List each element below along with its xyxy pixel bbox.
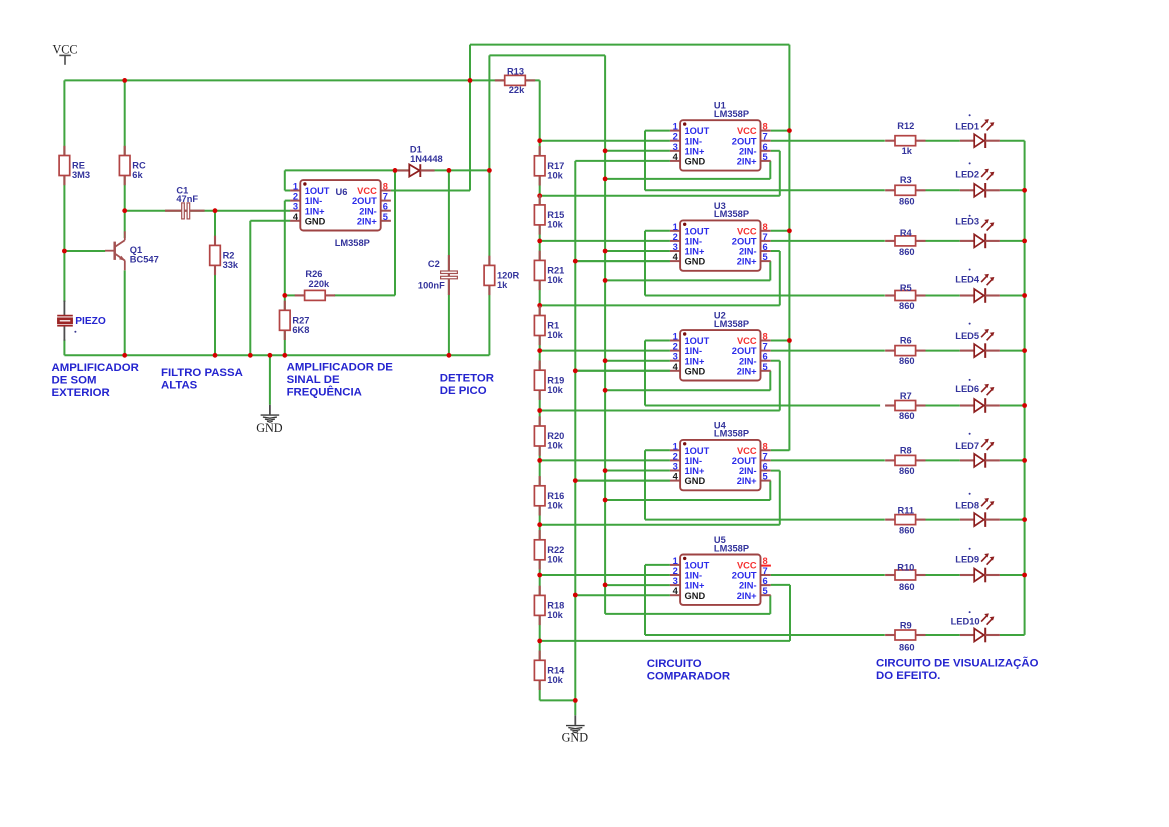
wire LED9 cathode to bus: [1000, 574, 1025, 576]
LED LED1: [960, 119, 1000, 148]
svg-text:1OUT: 1OUT: [305, 186, 330, 196]
svg-text:2OUT: 2OUT: [732, 346, 757, 356]
wire signal bus to U4 pin3: [605, 470, 670, 472]
svg-text:2IN-: 2IN-: [359, 206, 377, 216]
wire ladder tap toward U3 pin6: [540, 304, 780, 306]
svg-text:GND: GND: [685, 157, 706, 167]
op-amp U3 (LM358P): [670, 220, 771, 270]
LED9 value dot: [969, 548, 971, 550]
svg-text:1IN-: 1IN-: [305, 196, 323, 206]
LED10 value dot: [969, 611, 971, 613]
svg-text:FREQUÊNCIA: FREQUÊNCIA: [287, 386, 362, 399]
svg-text:1N4448: 1N4448: [410, 154, 443, 164]
junction ladder tap: [537, 458, 542, 463]
LED LED8: [960, 498, 1000, 527]
svg-text:1OUT: 1OUT: [685, 226, 710, 236]
svg-text:DO EFEITO.: DO EFEITO.: [876, 670, 940, 682]
svg-text:33k: 33k: [223, 260, 239, 270]
svg-text:R4: R4: [900, 228, 913, 238]
svg-text:2OUT: 2OUT: [732, 136, 757, 146]
wire U3 pin7 to LED row: [771, 240, 885, 242]
svg-text:2: 2: [673, 451, 678, 461]
svg-text:6k: 6k: [132, 170, 143, 180]
svg-text:1k: 1k: [902, 146, 913, 156]
svg-text:C2: C2: [428, 259, 440, 269]
wire signal bus to U2 pin5: [605, 389, 770, 391]
wire U3 pin8 to VCC bus: [771, 230, 790, 232]
svg-text:5: 5: [763, 152, 768, 162]
svg-text:1: 1: [293, 182, 298, 192]
svg-text:3: 3: [673, 242, 678, 252]
diode D1 (1N4448): [397, 164, 434, 177]
wire ladder tap to U2 pin2: [540, 350, 670, 352]
resistor R15: [534, 195, 545, 234]
junction ladder tap: [537, 639, 542, 644]
svg-text:3: 3: [293, 202, 298, 212]
svg-text:8: 8: [763, 222, 768, 232]
resistor R4: [885, 236, 925, 246]
wire U5 pin1 stub: [645, 564, 670, 566]
junction: [393, 168, 398, 173]
svg-text:VCC: VCC: [737, 226, 757, 236]
svg-text:BC547: BC547: [130, 254, 159, 264]
junction signal bus: [603, 583, 608, 588]
transistor Q1 (BC547): [105, 231, 125, 270]
wire LED8 cathode to bus: [1000, 519, 1025, 521]
junction: [122, 208, 127, 213]
resistor R13: [495, 75, 535, 85]
wire riser to U2 pin6: [779, 361, 781, 411]
PIEZO value dot: [74, 331, 76, 333]
svg-text:4: 4: [673, 362, 679, 372]
wire U3 pin1 stub: [645, 230, 670, 232]
resistor RC: [119, 146, 130, 185]
svg-text:2IN-: 2IN-: [739, 466, 757, 476]
wire U2 pin8 to VCC bus: [771, 340, 790, 342]
svg-text:R12: R12: [897, 121, 914, 131]
svg-text:6: 6: [763, 142, 768, 152]
svg-text:2IN-: 2IN-: [739, 146, 757, 156]
wire ladder tap to U4 pin2: [540, 459, 670, 461]
resistor R7: [885, 401, 925, 411]
junction ladder tap: [537, 348, 542, 353]
wire U4 pin1 to LED row: [645, 519, 885, 521]
wire signal bus to U2 pin3: [605, 360, 670, 362]
wire riser to U3 pin6: [779, 251, 781, 305]
resistor R18: [534, 586, 545, 625]
svg-text:1IN-: 1IN-: [685, 571, 703, 581]
svg-text:7: 7: [763, 451, 768, 461]
junction: [122, 353, 127, 358]
wire LED6 cathode to bus: [1000, 405, 1025, 407]
wire U5 pin7 to LED row: [771, 574, 885, 576]
svg-text:LED7: LED7: [955, 441, 979, 451]
wire resistor ladder: [539, 80, 541, 700]
wire riser to U4 pin6: [779, 471, 781, 525]
svg-text:LED8: LED8: [955, 500, 979, 510]
svg-text:R13: R13: [507, 66, 524, 76]
junction LED bus: [1022, 188, 1027, 193]
wire comparator GND bus: [574, 161, 576, 715]
ground: [261, 405, 280, 422]
wire R2 branch: [214, 211, 216, 356]
wire R to LED3: [926, 240, 960, 242]
junction GND bus: [573, 698, 578, 703]
svg-text:1IN-: 1IN-: [685, 136, 703, 146]
svg-text:860: 860: [899, 642, 915, 652]
junction: [213, 353, 218, 358]
svg-text:2: 2: [673, 566, 678, 576]
wire riser to U1 pin6: [779, 151, 781, 196]
svg-text:860: 860: [899, 356, 915, 366]
junction: [213, 208, 218, 213]
junction GND bus: [573, 368, 578, 373]
svg-text:2OUT: 2OUT: [732, 571, 757, 581]
resistor R5: [885, 291, 925, 301]
svg-text:860: 860: [899, 582, 915, 592]
svg-text:R10: R10: [897, 563, 914, 573]
wire U6 pin1 stub: [285, 190, 291, 192]
wire GND bus to U3 pin4: [575, 260, 670, 262]
svg-text:47nF: 47nF: [176, 194, 198, 204]
resistor R16: [534, 476, 545, 515]
wire GND bus to U3 pin4: [575, 260, 670, 262]
svg-text:2OUT: 2OUT: [732, 456, 757, 466]
junction LED bus: [1022, 573, 1027, 578]
junction ladder tap: [537, 522, 542, 527]
svg-text:R7: R7: [900, 391, 912, 401]
resistor 120R: [484, 256, 495, 295]
resistor R17: [534, 146, 545, 185]
svg-text:1IN-: 1IN-: [685, 237, 703, 247]
wire R to LED6: [926, 405, 960, 407]
svg-text:6: 6: [763, 576, 768, 586]
wire GND bus to U4 pin4: [575, 480, 670, 482]
svg-text:EXTERIOR: EXTERIOR: [52, 387, 110, 399]
junction LED bus: [1022, 293, 1027, 298]
wire U2 pin6 stub: [771, 360, 780, 362]
svg-text:CIRCUITO DE VISUALIZAÇÃO: CIRCUITO DE VISUALIZAÇÃO: [876, 657, 1039, 670]
svg-text:2: 2: [673, 232, 678, 242]
resistor R14: [534, 651, 545, 690]
svg-text:2IN+: 2IN+: [737, 476, 757, 486]
op-amp U5 (LM358P): [670, 555, 771, 605]
wire ladder tap toward U1 pin6: [540, 195, 780, 197]
junction ladder tap: [537, 303, 542, 308]
junction ladder tap: [537, 239, 542, 244]
svg-text:LM358P: LM358P: [714, 109, 749, 119]
junction: [447, 353, 452, 358]
wire RC branch down to Q1 collector: [124, 80, 126, 238]
svg-text:1IN+: 1IN+: [685, 466, 705, 476]
wire U3 pin5 riser: [769, 261, 771, 280]
svg-text:2IN+: 2IN+: [737, 257, 757, 267]
svg-text:DE PICO: DE PICO: [440, 385, 487, 397]
resistor R21: [534, 251, 545, 290]
junction: [487, 168, 492, 173]
svg-text:R11: R11: [898, 506, 915, 516]
LED8 value dot: [969, 493, 971, 495]
wire U4 pin1 stub: [645, 449, 670, 451]
svg-text:1: 1: [673, 222, 678, 232]
capacitor C1: [165, 203, 205, 219]
wire ladder tap to U3 pin2: [540, 240, 670, 242]
junction: [468, 78, 473, 83]
wire VCC rail down left column: [63, 80, 65, 302]
wire U1 pin6 stub: [771, 150, 780, 152]
wire VCC drop at x470: [469, 45, 471, 191]
svg-text:2IN+: 2IN+: [737, 366, 757, 376]
wire U1 pin8 to VCC bus: [771, 130, 790, 132]
wire ladder tap to U1 pin2: [540, 140, 670, 142]
wire ground rail to GND symbol: [269, 355, 271, 405]
svg-text:4: 4: [673, 586, 679, 596]
wire R to LED4: [926, 295, 960, 297]
svg-text:1: 1: [673, 441, 678, 451]
resistor R27: [280, 301, 291, 340]
junction signal bus: [603, 498, 608, 503]
svg-text:860: 860: [899, 301, 915, 311]
svg-text:1OUT: 1OUT: [685, 126, 710, 136]
svg-text:5: 5: [763, 472, 768, 482]
junction LED bus: [1022, 403, 1027, 408]
resistor R22: [534, 530, 545, 569]
svg-text:22k: 22k: [509, 85, 525, 95]
wire U2 pin7 to LED row: [771, 350, 885, 352]
svg-text:2: 2: [293, 192, 298, 202]
svg-text:10k: 10k: [547, 275, 563, 285]
svg-text:R6: R6: [900, 336, 912, 346]
svg-text:8: 8: [383, 182, 388, 192]
svg-text:VCC: VCC: [737, 561, 757, 571]
junction signal bus: [603, 249, 608, 254]
junction signal bus: [603, 468, 608, 473]
wire signal bus to U5 pin5: [605, 613, 770, 615]
LED6 value dot: [969, 379, 971, 381]
svg-text:4: 4: [673, 472, 679, 482]
wire R to LED9: [926, 574, 960, 576]
LED LED2: [960, 169, 1000, 198]
wire R to LED5: [926, 350, 960, 352]
op-amp U4 (LM358P): [670, 440, 771, 490]
junction GND bus: [573, 593, 578, 598]
LED4 value dot: [969, 269, 971, 271]
svg-text:7: 7: [763, 566, 768, 576]
svg-text:2OUT: 2OUT: [732, 237, 757, 247]
LED LED5: [960, 329, 1000, 358]
junction: [62, 249, 67, 254]
svg-text:LED6: LED6: [955, 384, 979, 394]
svg-text:PIEZO: PIEZO: [75, 316, 106, 327]
svg-text:COMPARADOR: COMPARADOR: [647, 670, 730, 682]
svg-text:CIRCUITO: CIRCUITO: [647, 658, 702, 670]
svg-text:860: 860: [899, 525, 915, 535]
wire U6 pin1 up: [284, 170, 286, 190]
junction signal bus: [603, 388, 608, 393]
LED LED10: [960, 613, 1000, 642]
wire R26 right: [334, 294, 395, 296]
svg-text:7: 7: [763, 342, 768, 352]
svg-text:10k: 10k: [547, 441, 563, 451]
resistor R26: [295, 290, 335, 300]
svg-text:2IN-: 2IN-: [739, 247, 757, 257]
svg-text:LM358P: LM358P: [714, 543, 749, 553]
svg-text:1IN+: 1IN+: [305, 206, 325, 216]
svg-text:5: 5: [763, 252, 768, 262]
svg-text:220k: 220k: [309, 279, 331, 289]
wire signal bus to U3 pin5: [605, 279, 770, 281]
wire R to LED10: [926, 634, 960, 636]
wire U5 pin5 riser: [769, 595, 771, 614]
svg-text:R8: R8: [900, 446, 912, 456]
wire LED3 cathode to bus: [1000, 240, 1025, 242]
svg-text:1OUT: 1OUT: [685, 336, 710, 346]
svg-text:4: 4: [673, 152, 679, 162]
svg-text:2IN-: 2IN-: [739, 356, 757, 366]
wire U2 pin1 stub: [645, 340, 670, 342]
svg-text:DETETOR: DETETOR: [440, 372, 494, 384]
resistor R8: [885, 455, 925, 465]
svg-text:FILTRO PASSA: FILTRO PASSA: [161, 367, 243, 379]
wire piezo to ground rail: [63, 340, 65, 356]
wire signal bus to U1 pin5: [605, 178, 770, 180]
wire GND bus to U4 pin4: [575, 480, 670, 482]
svg-text:10k: 10k: [547, 500, 563, 510]
svg-text:2IN+: 2IN+: [737, 157, 757, 167]
svg-text:4: 4: [673, 252, 679, 262]
svg-text:3: 3: [673, 142, 678, 152]
svg-text:860: 860: [899, 247, 915, 257]
wire LED2 cathode to bus: [1000, 189, 1025, 191]
svg-text:3: 3: [673, 352, 678, 362]
junction GND bus: [573, 478, 578, 483]
svg-text:VCC: VCC: [737, 446, 757, 456]
junction LED bus: [1022, 458, 1027, 463]
svg-text:10k: 10k: [547, 554, 563, 564]
svg-text:10k: 10k: [547, 610, 563, 620]
svg-text:5: 5: [383, 212, 388, 222]
svg-text:R26: R26: [305, 269, 322, 279]
resistor R11: [885, 515, 925, 525]
svg-text:3: 3: [673, 462, 678, 472]
junction: [268, 353, 273, 358]
LED LED9: [960, 553, 1000, 582]
svg-text:5: 5: [763, 586, 768, 596]
svg-text:860: 860: [899, 466, 915, 476]
wire top VCC rail: [64, 79, 539, 81]
svg-text:2: 2: [673, 342, 678, 352]
resistor R12: [885, 136, 925, 146]
svg-text:VCC: VCC: [737, 336, 757, 346]
wire U4 pin6 stub: [771, 470, 780, 472]
resistor R20: [534, 416, 545, 455]
svg-text:LM358P: LM358P: [714, 429, 749, 439]
junction: [248, 353, 253, 358]
wire GND bus to U2 pin4: [575, 370, 670, 372]
svg-text:1IN-: 1IN-: [685, 346, 703, 356]
svg-text:3M3: 3M3: [72, 170, 90, 180]
svg-text:10k: 10k: [547, 675, 563, 685]
svg-text:LM358P: LM358P: [335, 238, 370, 248]
svg-text:2IN+: 2IN+: [357, 216, 377, 226]
wire U3 pin1 loop down: [644, 231, 646, 296]
wire GND bus to U2 pin4: [575, 370, 670, 372]
wire LED4 cathode to bus: [1000, 295, 1025, 297]
svg-text:1IN-: 1IN-: [685, 456, 703, 466]
junction ladder tap: [537, 138, 542, 143]
svg-text:8: 8: [763, 556, 768, 566]
svg-text:8: 8: [763, 122, 768, 132]
svg-text:LED3: LED3: [955, 217, 979, 227]
svg-text:LM358P: LM358P: [714, 209, 749, 219]
svg-text:1OUT: 1OUT: [685, 561, 710, 571]
wire detector output over to comparator bus: [489, 54, 605, 56]
wire U1 pin5 riser: [769, 161, 771, 179]
wire LED5 cathode to bus: [1000, 350, 1025, 352]
wire U2 pin5 riser: [769, 371, 771, 391]
wire C2 branch: [448, 170, 450, 355]
junction signal bus: [603, 278, 608, 283]
svg-text:LED1: LED1: [955, 122, 979, 132]
svg-text:10k: 10k: [547, 170, 563, 180]
svg-text:860: 860: [899, 197, 915, 207]
junction ladder tap: [537, 573, 542, 578]
svg-text:8: 8: [763, 332, 768, 342]
svg-text:7: 7: [763, 232, 768, 242]
wire U6 pin4 to ground rail: [249, 221, 251, 355]
wire signal bus: [604, 55, 606, 614]
wire U2 pin1 loop down: [644, 341, 646, 406]
junction LED bus: [1022, 239, 1027, 244]
wire U1 pin1 stub: [645, 130, 670, 132]
svg-text:GND: GND: [685, 257, 706, 267]
junction VCC bus: [787, 338, 792, 343]
wire ladder tap to U5 pin2: [540, 574, 670, 576]
wire ladder bottom to GND bus: [540, 699, 576, 701]
svg-text:R9: R9: [900, 620, 912, 630]
LED LED4: [960, 274, 1000, 303]
svg-text:1: 1: [673, 556, 678, 566]
op-amp U6 (LM358P): [290, 180, 391, 230]
LED2 value dot: [969, 162, 971, 164]
junction: [282, 293, 287, 298]
svg-text:GND: GND: [562, 730, 589, 744]
junction: [282, 353, 287, 358]
svg-text:GND: GND: [256, 421, 283, 435]
junction: [122, 78, 127, 83]
svg-text:VCC: VCC: [737, 126, 757, 136]
wire ladder tap toward U4 pin6: [540, 524, 780, 526]
wire U6 pin2 down through R27: [284, 201, 286, 356]
svg-text:GND: GND: [305, 216, 326, 226]
junction VCC bus: [787, 128, 792, 133]
VCC power symbol: [59, 55, 71, 64]
wire detector node through 120R: [488, 55, 490, 355]
svg-text:100nF: 100nF: [418, 281, 445, 291]
wire riser to U5 pin6: [789, 585, 791, 641]
LED3 value dot: [969, 215, 971, 217]
svg-text:GND: GND: [685, 366, 706, 376]
wire signal bus to U3 pin3: [605, 250, 670, 252]
wire LED1 cathode to bus: [1000, 140, 1025, 142]
junction LED bus: [1022, 348, 1027, 353]
svg-text:1k: 1k: [497, 280, 508, 290]
junction: [447, 168, 452, 173]
svg-text:1: 1: [673, 332, 678, 342]
svg-text:1IN+: 1IN+: [685, 247, 705, 257]
op-amp U2 (LM358P): [670, 330, 771, 380]
junction signal bus: [603, 358, 608, 363]
